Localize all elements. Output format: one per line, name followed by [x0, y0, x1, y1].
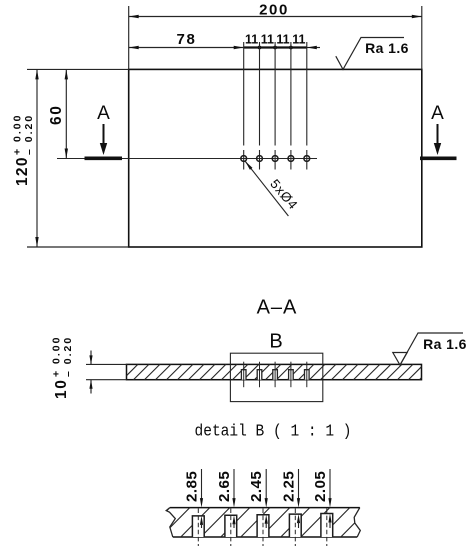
svg-text:60: 60	[48, 105, 65, 125]
extension line right	[421, 6, 423, 69]
svg-text:200: 200	[259, 2, 289, 19]
depth dim 2.85	[184, 469, 204, 528]
svg-text:+ 0.00: + 0.00	[12, 114, 24, 156]
section mark A left	[85, 103, 123, 158]
svg-text:120: 120	[14, 156, 31, 186]
section blind holes	[241, 362, 309, 388]
svg-text:11: 11	[245, 33, 258, 47]
dimension chain 4x11	[244, 33, 320, 50]
detail blind holes	[192, 514, 332, 538]
svg-text:– 0.20: – 0.20	[23, 114, 35, 155]
svg-text:11: 11	[292, 33, 305, 47]
svg-text:Ra 1.6: Ra 1.6	[365, 40, 409, 56]
dimension 78	[129, 31, 244, 49]
dimension 200	[129, 2, 422, 19]
hole centre lines vertical	[244, 42, 307, 170]
svg-text:11: 11	[261, 33, 274, 47]
svg-text:detail B ( 1 : 1 ): detail B ( 1 : 1 )	[195, 423, 352, 442]
plate outline (top view 200x120)	[129, 69, 422, 247]
svg-text:2.85: 2.85	[184, 471, 201, 502]
svg-text:A: A	[431, 103, 444, 124]
svg-text:5xØ4: 5xØ4	[267, 176, 301, 212]
svg-text:11: 11	[276, 33, 289, 47]
section plate outline	[127, 364, 422, 379]
svg-text:– 0.20: – 0.20	[62, 336, 74, 377]
leader 5x dia4	[245, 161, 301, 216]
detail centre lines	[198, 509, 326, 547]
svg-text:2.25: 2.25	[281, 471, 298, 502]
detail box B	[230, 353, 322, 401]
svg-text:2.05: 2.05	[312, 471, 329, 502]
svg-text:Ra 1.6: Ra 1.6	[423, 336, 467, 352]
depth dim 2.05	[312, 469, 332, 528]
depth dim 2.65	[216, 469, 236, 528]
svg-text:B: B	[269, 331, 282, 353]
svg-text:A–A: A–A	[257, 297, 298, 319]
svg-text:10: 10	[53, 379, 70, 399]
depth dim 2.25	[281, 469, 301, 528]
5 holes dia 4	[241, 156, 310, 162]
svg-text:+ 0.00: + 0.00	[51, 336, 63, 378]
svg-text:2.45: 2.45	[248, 471, 265, 502]
surface finish Ra 1.6 (top view)	[336, 38, 409, 70]
depth dim 2.45	[248, 469, 268, 528]
horizontal centre line	[57, 158, 317, 160]
extension line left	[128, 6, 130, 69]
svg-text:A: A	[97, 103, 110, 124]
dimension 120 +0.00/-0.20	[12, 69, 129, 247]
detail plate with break lines	[166, 508, 175, 537]
dimension 10 +0.00/-0.20	[51, 336, 127, 400]
svg-text:78: 78	[177, 31, 197, 48]
svg-text:2.65: 2.65	[216, 471, 233, 502]
dimension 60	[48, 69, 68, 158]
section mark A right	[420, 103, 457, 158]
surface finish Ra 1.6 (section)	[393, 333, 467, 365]
